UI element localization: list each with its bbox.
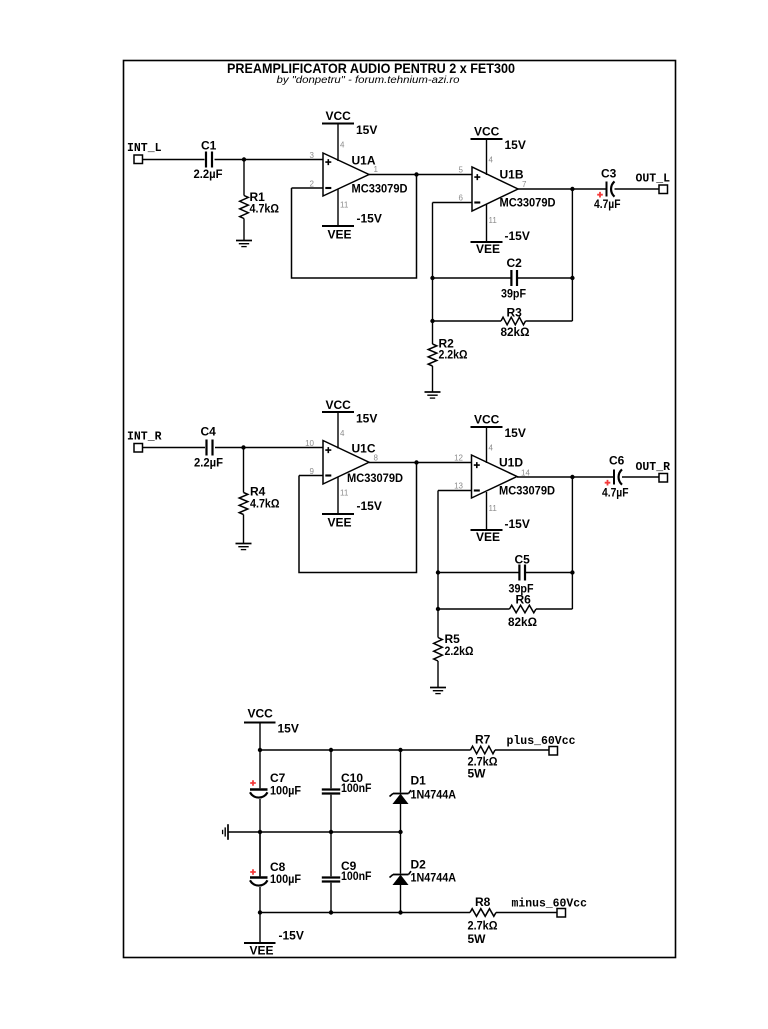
svg-text:VEE: VEE bbox=[328, 516, 352, 530]
svg-text:C4: C4 bbox=[201, 425, 217, 439]
svg-text:3: 3 bbox=[310, 151, 315, 160]
svg-text:15V: 15V bbox=[505, 426, 526, 440]
svg-text:MC33079D: MC33079D bbox=[500, 196, 556, 210]
svg-text:6: 6 bbox=[459, 194, 464, 203]
svg-text:C1: C1 bbox=[201, 139, 217, 153]
svg-text:14: 14 bbox=[521, 469, 530, 478]
svg-text:100µF: 100µF bbox=[270, 784, 301, 798]
svg-text:15V: 15V bbox=[278, 722, 299, 736]
svg-text:MC33079D: MC33079D bbox=[499, 484, 555, 498]
svg-text:by "donpetru" - forum.tehnium-: by "donpetru" - forum.tehnium-azi.ro bbox=[277, 74, 460, 86]
svg-text:11: 11 bbox=[340, 201, 349, 210]
svg-text:minus_60Vcc: minus_60Vcc bbox=[512, 898, 588, 911]
svg-text:OUT_R: OUT_R bbox=[636, 461, 671, 474]
svg-text:INT_R: INT_R bbox=[127, 431, 162, 444]
svg-text:C5: C5 bbox=[515, 553, 531, 567]
svg-text:15V: 15V bbox=[356, 412, 377, 426]
svg-text:5W: 5W bbox=[468, 932, 487, 946]
svg-text:1N4744A: 1N4744A bbox=[411, 871, 457, 885]
svg-text:39pF: 39pF bbox=[501, 287, 526, 301]
svg-text:4.7µF: 4.7µF bbox=[594, 197, 621, 211]
svg-text:VEE: VEE bbox=[476, 242, 500, 256]
svg-text:2.7kΩ: 2.7kΩ bbox=[468, 919, 498, 933]
svg-text:R6: R6 bbox=[516, 593, 532, 607]
svg-text:11: 11 bbox=[489, 504, 498, 513]
svg-text:4: 4 bbox=[489, 444, 494, 453]
svg-text:VCC: VCC bbox=[326, 398, 352, 412]
svg-text:100nF: 100nF bbox=[341, 781, 372, 795]
svg-text:plus_60Vcc: plus_60Vcc bbox=[507, 735, 576, 748]
svg-text:11: 11 bbox=[340, 489, 349, 498]
svg-text:VEE: VEE bbox=[476, 530, 500, 544]
svg-text:U1B: U1B bbox=[500, 168, 524, 182]
svg-text:C2: C2 bbox=[507, 256, 523, 270]
svg-text:R7: R7 bbox=[475, 733, 491, 747]
svg-text:82kΩ: 82kΩ bbox=[508, 615, 537, 629]
svg-text:2.2µF: 2.2µF bbox=[194, 167, 223, 181]
svg-text:13: 13 bbox=[454, 482, 463, 491]
svg-text:2.2kΩ: 2.2kΩ bbox=[439, 348, 468, 362]
svg-text:VCC: VCC bbox=[326, 109, 352, 123]
svg-text:4.7µF: 4.7µF bbox=[602, 486, 629, 500]
svg-text:4: 4 bbox=[340, 141, 345, 150]
svg-text:D2: D2 bbox=[411, 858, 427, 872]
svg-text:82kΩ: 82kΩ bbox=[501, 325, 530, 339]
svg-text:4: 4 bbox=[340, 429, 345, 438]
svg-text:-15V: -15V bbox=[357, 499, 382, 513]
svg-text:1N4744A: 1N4744A bbox=[411, 788, 457, 802]
svg-text:7: 7 bbox=[522, 180, 527, 189]
svg-text:5W: 5W bbox=[468, 767, 487, 781]
svg-text:U1D: U1D bbox=[499, 456, 523, 470]
svg-text:VEE: VEE bbox=[328, 228, 352, 242]
svg-text:MC33079D: MC33079D bbox=[352, 182, 408, 196]
svg-text:2.2µF: 2.2µF bbox=[194, 456, 223, 470]
svg-text:U1C: U1C bbox=[352, 442, 376, 456]
svg-text:VCC: VCC bbox=[248, 707, 274, 721]
svg-text:15V: 15V bbox=[356, 123, 377, 137]
svg-text:R8: R8 bbox=[475, 895, 491, 909]
svg-text:4: 4 bbox=[489, 156, 494, 165]
svg-text:10: 10 bbox=[305, 439, 314, 448]
svg-text:11: 11 bbox=[489, 216, 498, 225]
svg-text:OUT_L: OUT_L bbox=[636, 173, 671, 186]
svg-text:-15V: -15V bbox=[505, 229, 530, 243]
svg-text:4.7kΩ: 4.7kΩ bbox=[250, 202, 280, 216]
svg-text:C6: C6 bbox=[609, 454, 625, 468]
svg-text:VCC: VCC bbox=[474, 413, 500, 427]
svg-text:VCC: VCC bbox=[474, 125, 500, 139]
svg-text:INT_L: INT_L bbox=[127, 142, 162, 155]
svg-text:5: 5 bbox=[459, 166, 464, 175]
svg-text:-15V: -15V bbox=[279, 929, 304, 943]
svg-text:C3: C3 bbox=[601, 167, 617, 181]
svg-text:100µF: 100µF bbox=[270, 872, 301, 886]
svg-text:4.7kΩ: 4.7kΩ bbox=[250, 497, 280, 511]
svg-text:D1: D1 bbox=[411, 774, 427, 788]
svg-text:8: 8 bbox=[374, 454, 379, 463]
svg-text:-15V: -15V bbox=[505, 517, 530, 531]
svg-text:2: 2 bbox=[310, 180, 315, 189]
svg-text:12: 12 bbox=[454, 454, 463, 463]
svg-text:9: 9 bbox=[310, 467, 315, 476]
svg-text:R3: R3 bbox=[507, 306, 523, 320]
svg-text:2.2kΩ: 2.2kΩ bbox=[445, 644, 474, 658]
svg-text:MC33079D: MC33079D bbox=[347, 471, 403, 485]
svg-text:100nF: 100nF bbox=[341, 869, 372, 883]
svg-text:15V: 15V bbox=[505, 138, 526, 152]
svg-text:1: 1 bbox=[374, 165, 379, 174]
svg-text:U1A: U1A bbox=[352, 154, 376, 168]
svg-text:VEE: VEE bbox=[250, 944, 274, 958]
svg-text:-15V: -15V bbox=[357, 212, 382, 226]
